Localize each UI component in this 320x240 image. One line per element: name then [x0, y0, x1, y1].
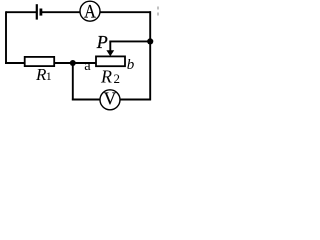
junction node after R1: [70, 60, 76, 66]
wire to voltmeter left: [72, 99, 100, 101]
svg-text:V: V: [104, 88, 117, 108]
svg-text:1: 1: [46, 69, 52, 83]
svg-text:R: R: [100, 67, 112, 87]
junction node on right wire: [147, 38, 153, 44]
svg-text:P: P: [96, 32, 108, 52]
wire right vertical: [149, 11, 151, 100]
svg-text:2: 2: [114, 71, 121, 86]
wire left vertical: [5, 11, 7, 64]
wire ammeter to top-right corner: [100, 11, 151, 13]
ammeter A1: [80, 1, 100, 22]
rheostat R2: [96, 56, 125, 86]
slider P arrow onto R2: [106, 41, 114, 57]
svg-text:A: A: [84, 2, 96, 23]
svg-text:b: b: [127, 57, 135, 73]
wire junction down to voltmeter branch: [72, 63, 74, 100]
battery (cell): [37, 4, 41, 19]
wire bottom-left horizontal to R1: [5, 62, 25, 64]
edge artifact marks: [157, 7, 159, 16]
voltmeter V1: [100, 88, 120, 110]
wire voltmeter right to bottom-right corner: [120, 99, 151, 101]
wire R1 to rheostat terminal a: [54, 62, 96, 64]
wire slider to right vertical: [109, 40, 150, 42]
svg-text:a: a: [84, 58, 91, 74]
wire top-left from corner to battery: [6, 11, 36, 13]
resistor R1: [25, 57, 55, 84]
wire battery to ammeter: [42, 11, 80, 13]
